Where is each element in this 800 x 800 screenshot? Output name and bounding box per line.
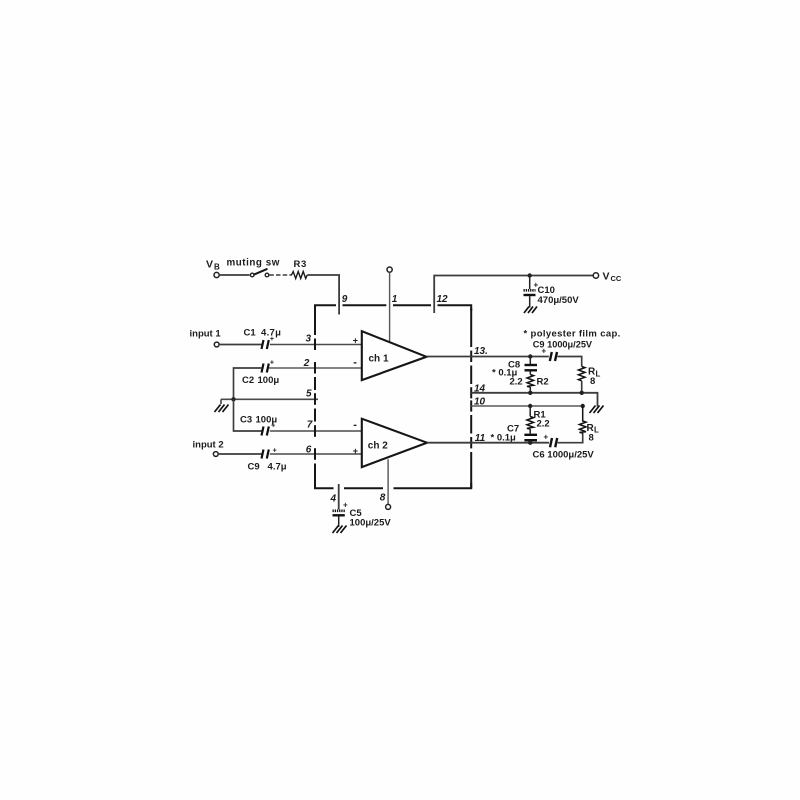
svg-text:-: - — [353, 357, 357, 369]
pin tick 14 — [470, 387, 472, 398]
IC outline right edge — [470, 308, 472, 488]
svg-text:14: 14 — [474, 384, 486, 395]
IC outline left edge — [314, 309, 316, 488]
svg-text:C1: C1 — [244, 328, 257, 339]
ground (C10) — [524, 307, 537, 314]
capacitor C8 + resistor R2 branch — [492, 357, 537, 379]
terminal VB — [206, 259, 220, 278]
svg-text:input 1: input 1 — [190, 329, 222, 340]
svg-text:B: B — [214, 263, 220, 272]
capacitor C7 — [491, 424, 538, 444]
svg-text:100μ: 100μ — [258, 375, 280, 386]
svg-text:8: 8 — [589, 433, 594, 444]
svg-text:+: + — [353, 336, 358, 346]
svg-text:-: - — [353, 419, 357, 431]
wire VB to switch — [219, 274, 249, 276]
svg-text:+: + — [544, 433, 549, 442]
capacitor C2 — [242, 358, 279, 386]
IC outline top edge — [315, 305, 471, 311]
ground (input side) — [215, 399, 229, 412]
node C2/C3 junction — [231, 397, 235, 401]
svg-text:2: 2 — [303, 358, 310, 369]
svg-text:12: 12 — [437, 294, 449, 305]
terminal input 2 — [193, 440, 224, 457]
terminal input 1 — [190, 329, 222, 347]
node RL/pin14 junction — [580, 391, 584, 395]
svg-text:4.7μ: 4.7μ — [261, 328, 281, 339]
wire pin 4 — [338, 484, 340, 510]
pin tick 11 — [470, 437, 472, 448]
resistor R3 — [292, 259, 308, 279]
svg-text:muting sw: muting sw — [227, 258, 280, 269]
svg-text:L: L — [594, 426, 599, 435]
wire C1 to pin 3 — [270, 344, 362, 346]
capacitor C10 — [524, 276, 580, 308]
wire input1 to C1 — [219, 344, 262, 346]
svg-text:R2: R2 — [537, 377, 549, 388]
pin tick 10 — [470, 400, 472, 411]
svg-text:3: 3 — [306, 334, 312, 345]
pin tick 6 — [314, 448, 316, 460]
wire pin 8 — [387, 459, 389, 504]
svg-text:1: 1 — [392, 294, 398, 305]
svg-text:8: 8 — [380, 493, 386, 504]
wire pin 14 to ground — [471, 393, 597, 407]
node RL2/pin10 junction — [581, 404, 585, 408]
op-amp U2 ch 2 — [353, 419, 427, 467]
svg-text:7: 7 — [307, 420, 313, 431]
terminal Vcc — [593, 271, 622, 284]
wire pin 10 — [471, 405, 583, 407]
wire junction to C3 — [234, 399, 263, 431]
resistor RL (ch2 load) — [579, 406, 599, 444]
svg-text:10: 10 — [474, 397, 486, 408]
capacitor C3 — [240, 414, 277, 435]
node R1/pin10 junction — [528, 404, 532, 408]
terminal pin 1 — [387, 267, 392, 342]
capacitor C5 — [333, 501, 392, 529]
ground (C5) — [333, 526, 347, 534]
IC outline bottom edge — [315, 483, 471, 488]
wire C3 to pin 7 — [270, 430, 362, 432]
svg-text:* polyester film cap.: * polyester film cap. — [524, 329, 621, 340]
svg-text:5: 5 — [306, 389, 312, 400]
capacitor C4 — [248, 446, 287, 473]
wire C9 to RL — [558, 357, 582, 367]
switch muting sw — [227, 258, 280, 277]
wire C4 to pin 6 — [270, 453, 362, 455]
svg-text:4: 4 — [330, 494, 337, 505]
svg-text:2.2: 2.2 — [537, 419, 550, 430]
node Vcc/C10 junction — [528, 273, 532, 277]
svg-text:2.2: 2.2 — [510, 377, 523, 388]
terminal pin 8 — [386, 504, 391, 509]
svg-text:+: + — [353, 446, 358, 456]
wire pin 2 to C2 — [269, 367, 362, 369]
svg-text:+: + — [343, 501, 348, 510]
node pin13/C8 junction — [528, 354, 532, 358]
wire ch1 output to pin 13 — [427, 356, 549, 358]
svg-text:470μ/50V: 470μ/50V — [538, 295, 580, 306]
node pin11/C7 junction — [528, 441, 532, 445]
pin tick 7 — [314, 425, 316, 437]
pin tick 5 — [314, 393, 316, 405]
node R2/pin14 junction — [528, 391, 532, 395]
svg-text:CC: CC — [611, 274, 622, 283]
svg-text:11: 11 — [475, 433, 486, 444]
svg-text:V: V — [206, 259, 213, 271]
wire pin 5 — [221, 398, 318, 400]
wire C6 to RL2 — [558, 433, 583, 443]
capacitor C6 (output ch2) — [533, 433, 595, 461]
resistor R1 — [527, 406, 550, 434]
svg-text:C2: C2 — [242, 375, 254, 386]
Vcc rail wire — [434, 276, 593, 314]
svg-text:C3: C3 — [240, 414, 252, 425]
resistor RL (ch1 load) — [578, 367, 600, 393]
svg-text:100μ/25V: 100μ/25V — [350, 518, 392, 529]
wire R3 to pin 9 — [307, 275, 339, 315]
svg-text:ch 2: ch 2 — [368, 441, 388, 452]
svg-text:C9 4.7μ: C9 4.7μ — [248, 462, 287, 473]
capacitor C1 — [244, 328, 282, 350]
svg-text:13.: 13. — [474, 346, 488, 357]
svg-text:100μ: 100μ — [256, 414, 278, 425]
capacitor C9 (output ch1) — [533, 340, 593, 362]
pin tick 3 — [314, 339, 316, 351]
resistor R2 — [510, 375, 549, 393]
svg-text:ch 1: ch 1 — [369, 354, 389, 365]
svg-text:8: 8 — [590, 376, 595, 387]
ground (right) — [590, 406, 604, 414]
svg-text:C6 1000μ/25V: C6 1000μ/25V — [533, 450, 595, 461]
wire switch to R3 (dashed) — [269, 274, 292, 276]
svg-text:+: + — [273, 446, 278, 455]
wire ch2 output to pin 11 — [427, 442, 549, 444]
svg-text:6: 6 — [306, 445, 312, 456]
svg-text:R3: R3 — [294, 259, 307, 270]
svg-text:+: + — [270, 358, 275, 367]
wire C2 to ground node — [234, 368, 263, 399]
pin tick 2 — [314, 362, 316, 374]
svg-text:9: 9 — [342, 294, 348, 305]
wire input2 to C4 — [218, 453, 262, 455]
svg-text:L: L — [596, 370, 601, 379]
pin tick 13 — [470, 351, 472, 362]
svg-text:C9 1000μ/25V: C9 1000μ/25V — [533, 340, 593, 350]
op-amp U1 ch 1 — [353, 331, 427, 380]
svg-text:input 2: input 2 — [193, 440, 224, 451]
svg-text:V: V — [603, 271, 610, 283]
